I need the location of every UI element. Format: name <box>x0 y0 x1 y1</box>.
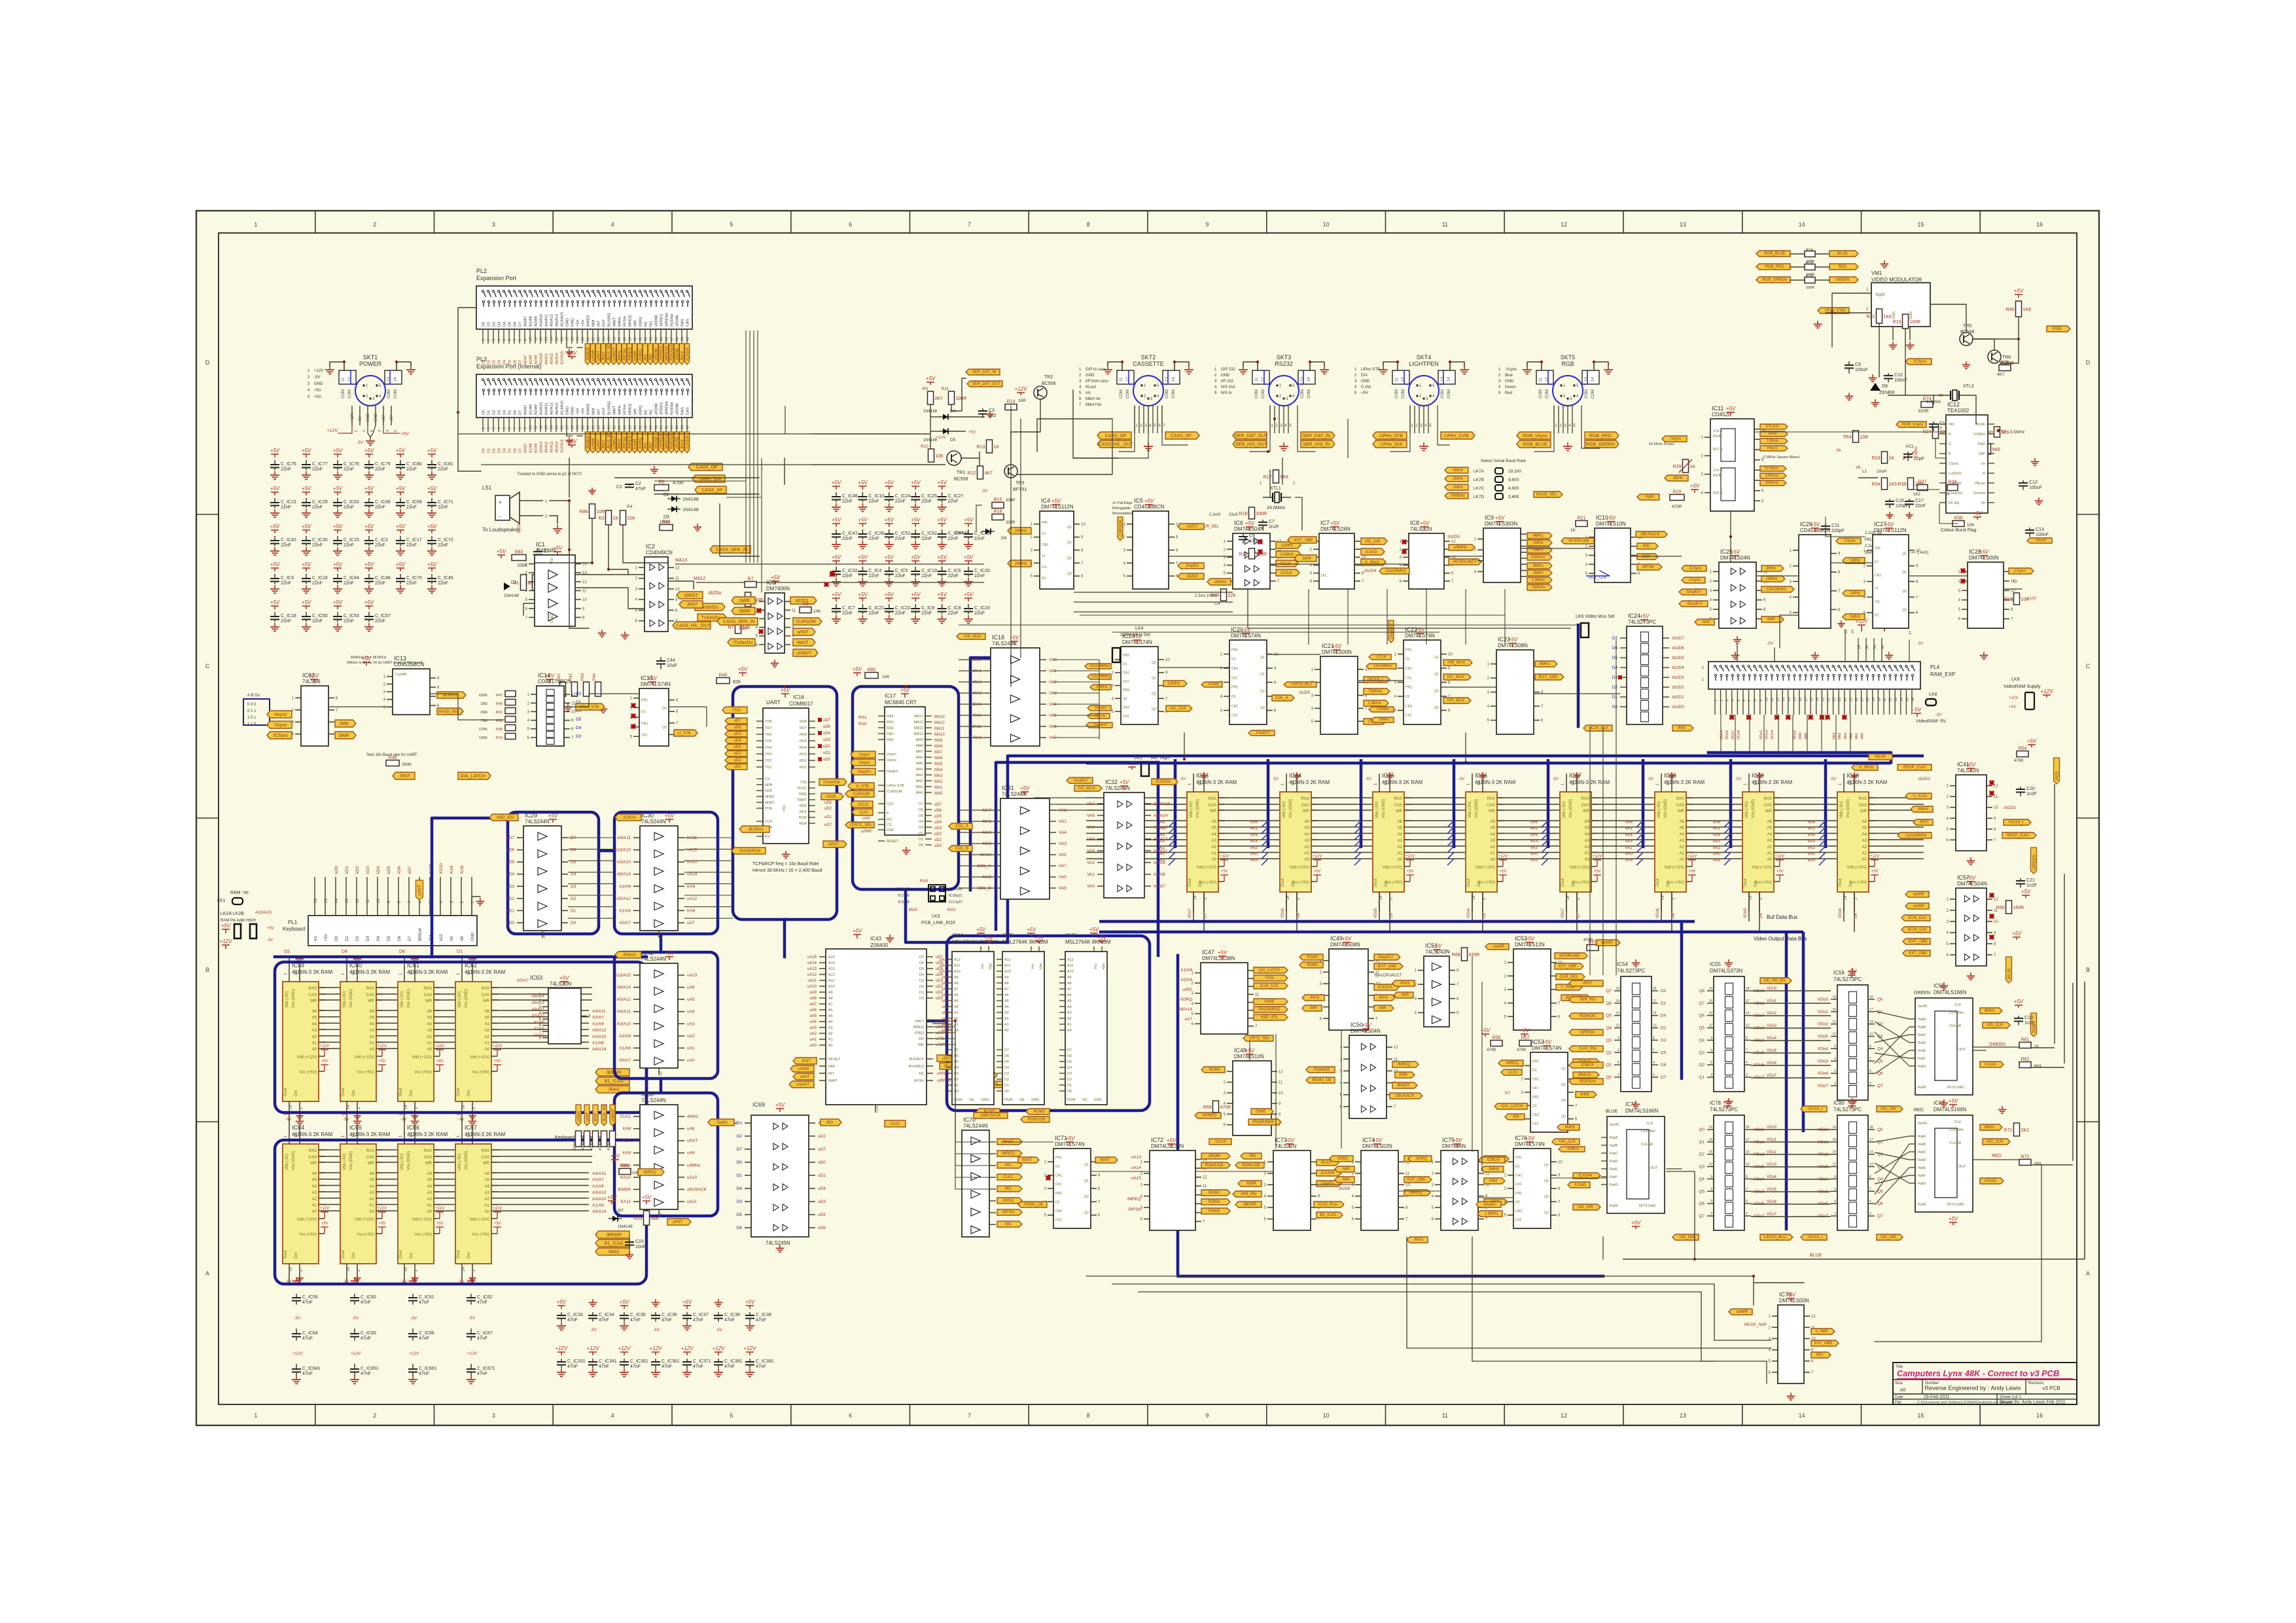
capacitor C_IC33/C_IC331 <box>556 1299 586 1376</box>
svg-text:PL1: PL1 <box>288 919 298 925</box>
svg-text:Vb: Vb <box>1938 394 1943 398</box>
svg-text:WR: WR <box>1860 810 1867 813</box>
svg-text:IC55: IC55 <box>1710 961 1721 967</box>
svg-text:RA0: RA0 <box>858 722 867 726</box>
svg-text:A0/A7: A0/A7 <box>524 316 528 327</box>
svg-text:/BUS_RQ: /BUS_RQ <box>603 1104 607 1122</box>
svg-text:4: 4 <box>1869 1200 1871 1204</box>
svg-text:+12V: +12V <box>220 938 233 944</box>
svg-text:14: 14 <box>1844 895 1848 900</box>
svg-text:TxSerOu: TxSerOu <box>701 616 720 620</box>
svg-text:LK7B: LK7B <box>1474 478 1484 482</box>
svg-text:Vcc (+5V): Vcc (+5V) <box>299 1071 317 1075</box>
svg-text:Q2: Q2 <box>1260 689 1265 693</box>
cassette input parts <box>497 548 548 598</box>
svg-text:12: 12 <box>1708 1024 1712 1028</box>
net flags IC54 <box>1569 980 1603 1084</box>
svg-text:TD5: TD5 <box>765 740 771 743</box>
svg-text:R1: R1 <box>514 581 520 586</box>
svg-text:COM: COM <box>1539 389 1543 399</box>
svg-text:C_IC641: C_IC641 <box>302 1366 321 1371</box>
svg-text:GND: GND <box>314 382 323 386</box>
svg-text:26: 26 <box>1855 698 1859 702</box>
svg-text:ROM3: ROM3 <box>1034 1110 1046 1114</box>
svg-text:kD7: kD7 <box>408 866 412 874</box>
svg-text:22nF: 22nF <box>312 581 323 586</box>
svg-text:R11: R11 <box>942 387 949 391</box>
svg-text:O/P 232: O/P 232 <box>1221 368 1236 372</box>
svg-text:11: 11 <box>1994 795 1998 799</box>
svg-text:C20: C20 <box>2026 787 2035 791</box>
svg-text:Red: Red <box>1505 391 1512 395</box>
svg-text:14: 14 <box>550 425 554 429</box>
svg-text:uA6: uA6 <box>687 986 695 990</box>
crystal XTL1 24.0MHz <box>1260 482 1296 510</box>
svg-text:D1: D1 <box>919 991 924 995</box>
svg-text:SKT2: SKT2 <box>1141 354 1156 361</box>
svg-text:A4: A4 <box>1862 832 1867 836</box>
svg-text:29: 29 <box>629 425 633 429</box>
net flags REXP <box>1852 738 2037 770</box>
capacitor C_IC19 <box>911 554 937 586</box>
svg-text:7: 7 <box>968 1412 971 1419</box>
svg-text:COM: COM <box>1126 389 1130 399</box>
svg-text:A0: A0 <box>1398 858 1403 862</box>
svg-text:18: 18 <box>1653 987 1657 991</box>
jumper LK4 <box>1112 626 1150 662</box>
svg-text:COM: COM <box>1255 389 1259 399</box>
svg-text:Vss (GND): Vss (GND) <box>1382 799 1386 818</box>
svg-text:1N4148: 1N4148 <box>682 497 699 502</box>
svg-text:+5V: +5V <box>302 562 311 567</box>
svg-text:12: 12 <box>1994 898 1998 902</box>
svg-text:22nF: 22nF <box>281 581 291 586</box>
svg-text:xROMi: xROMi <box>655 403 659 415</box>
svg-text:+5V: +5V <box>911 592 921 597</box>
svg-text:KBD_/EN: KBD_/EN <box>1261 1016 1278 1020</box>
svg-text:R13: R13 <box>977 445 985 450</box>
svg-text:+5V: +5V <box>270 448 280 454</box>
svg-text:8: 8 <box>1087 221 1090 228</box>
svg-text:/M1: /M1 <box>644 442 648 449</box>
bus PL4 drop <box>1708 753 1891 762</box>
svg-text:11: 11 <box>675 577 680 581</box>
svg-text:22nF: 22nF <box>438 505 448 510</box>
svg-text:D4: D4 <box>1004 1066 1009 1070</box>
svg-text:A1/A8: A1/A8 <box>529 443 533 453</box>
svg-text:NDB2: NDB2 <box>765 795 775 799</box>
svg-text:/RADR/RDE: /RADR/RDE <box>1252 1120 1274 1124</box>
svg-text:Vpp: Vpp <box>989 963 993 970</box>
svg-text:/VC_MUX: /VC_MUX <box>1078 787 1095 791</box>
svg-text:Q1: Q1 <box>1152 661 1156 665</box>
svg-text:1N4148: 1N4148 <box>504 594 519 598</box>
svg-text:11: 11 <box>1485 1172 1490 1176</box>
svg-text:kD4: kD4 <box>506 872 514 877</box>
svg-text:MC6845 CRT: MC6845 CRT <box>885 700 917 705</box>
svg-text:16: 16 <box>2036 221 2043 228</box>
svg-text:MA4: MA4 <box>934 768 943 772</box>
svg-text:RD6: RD6 <box>800 733 807 737</box>
svg-text:RD7: RD7 <box>800 726 807 730</box>
svg-text:GND: GND <box>471 932 475 941</box>
svg-text:IC43: IC43 <box>870 936 881 942</box>
svg-text:2x Fall Edge: 2x Fall Edge <box>1112 501 1133 505</box>
svg-text:500KHz: 500KHz <box>1531 556 1545 560</box>
svg-text:100R: 100R <box>1806 286 1814 290</box>
svg-text:D1: D1 <box>1123 662 1127 666</box>
svg-text:+5V: +5V <box>545 673 555 679</box>
svg-text:Q1: Q1 <box>1434 656 1439 660</box>
svg-text:Clr1: Clr1 <box>1405 676 1412 680</box>
IC IC56 74LS273PC latch <box>1801 968 1903 1112</box>
svg-text:VA3: VA3 <box>1059 842 1067 846</box>
svg-text:19: 19 <box>1832 1126 1836 1130</box>
svg-text:IC18p11: IC18p11 <box>949 894 962 898</box>
svg-text:17: 17 <box>1746 1138 1750 1142</box>
svg-text:A4: A4 <box>370 1022 375 1026</box>
svg-text:1n2F: 1n2F <box>2024 1021 2035 1026</box>
svg-text:INT: INT <box>828 1072 835 1076</box>
svg-text:C_IC2: C_IC2 <box>375 538 388 543</box>
svg-text:CLK: CLK <box>875 1105 879 1113</box>
svg-text:MREQ: MREQ <box>629 403 633 415</box>
svg-text:35: 35 <box>660 425 664 429</box>
RAM IC60 <box>340 962 390 1121</box>
svg-text:ztBUSACK: ztBUSACK <box>1395 1094 1414 1098</box>
svg-text:+5V: +5V <box>1500 870 1508 874</box>
svg-text:+5V: +5V <box>832 592 841 597</box>
svg-text:u4MHz: u4MHz <box>687 1163 701 1168</box>
svg-text:7: 7 <box>514 427 518 429</box>
svg-text:+5V: +5V <box>976 927 986 933</box>
svg-text:6: 6 <box>849 1412 852 1419</box>
svg-text:IORQ: IORQ <box>639 405 643 415</box>
svg-text:xROMi: xROMi <box>654 348 659 361</box>
svg-text:11: 11 <box>1395 377 1399 382</box>
svg-text:3: 3 <box>1746 1212 1748 1216</box>
svg-text:LumDd1: LumDd1 <box>1949 472 1962 476</box>
svg-text:n/c: n/c <box>314 936 318 941</box>
svg-text:RA3: RA3 <box>887 721 894 724</box>
svg-text:CLK: CLK <box>1954 1003 1962 1007</box>
svg-text:RatC: RatC <box>1610 1152 1618 1156</box>
svg-text:9: 9 <box>1834 1175 1836 1179</box>
svg-text:Clk2: Clk2 <box>1055 1209 1062 1213</box>
svg-text:Dout: Dout <box>457 1088 461 1096</box>
svg-text:17: 17 <box>1869 1008 1873 1012</box>
svg-text:uA7: uA7 <box>687 921 695 925</box>
svg-text:1: 1 <box>254 1412 257 1419</box>
svg-text:GND: GND <box>1361 380 1370 383</box>
svg-text:+5V: +5V <box>832 517 841 523</box>
IC IC75 DM7406N <box>1407 1137 1509 1243</box>
svg-text:uA13: uA13 <box>1131 1155 1142 1160</box>
svg-text:+5V: +5V <box>1285 1137 1295 1143</box>
svg-text:A4: A4 <box>1680 832 1685 836</box>
net flag /RMUX <box>615 950 675 960</box>
svg-text:RatE: RatE <box>1918 1049 1926 1053</box>
svg-text:ROM3: ROM3 <box>1209 1209 1220 1213</box>
svg-text:D2: D2 <box>571 897 576 901</box>
svg-text:/CAS_R1a: /CAS_R1a <box>1318 1203 1337 1207</box>
svg-text:470R: 470R <box>582 1142 586 1150</box>
svg-text:A6: A6 <box>1004 993 1009 997</box>
IC IC3 DM7406N <box>756 579 797 653</box>
op-amp IC1 LM324N <box>525 541 588 626</box>
svg-text:/RST: /RST <box>1920 821 1929 825</box>
svg-text:+5V: +5V <box>364 486 374 491</box>
svg-text:47nF: 47nF <box>361 1336 371 1341</box>
svg-text:14: 14 <box>394 377 398 382</box>
svg-text:56K: 56K <box>651 1217 660 1221</box>
capacitor C_IC29 <box>302 486 328 517</box>
svg-text:Vdd (+12V): Vdd (+12V) <box>1382 866 1402 870</box>
svg-text:A12: A12 <box>1004 958 1011 962</box>
svg-text:A3: A3 <box>1767 839 1773 843</box>
svg-text:RS: RS <box>765 835 770 839</box>
svg-text:RA0: RA0 <box>920 879 928 883</box>
svg-text:/IC24_CLK: /IC24_CLK <box>1908 928 1927 932</box>
svg-text:1: 1 <box>482 339 486 341</box>
bus VA channel right <box>1157 762 1160 955</box>
svg-text:Blue: Blue <box>1505 374 1513 378</box>
svg-text:Vcc (+5V): Vcc (+5V) <box>357 1233 374 1237</box>
svg-text:A6: A6 <box>1491 820 1496 824</box>
svg-text:R15: R15 <box>994 498 1002 503</box>
svg-text:12or24MHz: 12or24MHz <box>1373 664 1392 668</box>
svg-text:10K: 10K <box>936 454 944 459</box>
svg-text:/RAS: /RAS <box>1400 982 1409 986</box>
logic table + sync flags <box>243 694 356 739</box>
svg-text:/LOAD: /LOAD <box>1366 550 1378 554</box>
svg-text:A5/A12: A5/A12 <box>550 441 554 453</box>
svg-text:RatG: RatG <box>1610 1183 1618 1187</box>
svg-text:/EXT_OBE: /EXT_OBE <box>1294 539 1313 543</box>
svg-text:/EXT_OBE: /EXT_OBE <box>1538 675 1557 679</box>
svg-text:GND: GND <box>981 1098 989 1102</box>
svg-text:Q1: Q1 <box>1561 1083 1566 1087</box>
svg-text:17: 17 <box>566 425 570 429</box>
svg-text:22nF: 22nF <box>868 574 879 579</box>
svg-text:/RAS: /RAS <box>1414 1238 1423 1242</box>
svg-text:975.5Hz: 975.5Hz <box>1766 425 1780 429</box>
svg-text:A0: A0 <box>427 1210 433 1214</box>
svg-text:33: 33 <box>650 425 654 429</box>
svg-text:D1: D1 <box>1532 1069 1537 1073</box>
svg-text:Vdd (+12V): Vdd (+12V) <box>469 1056 489 1060</box>
capacitor C_IC2 <box>364 524 388 555</box>
svg-text:IC67: IC67 <box>465 1124 477 1131</box>
svg-text:+12V: +12V <box>2009 696 2019 700</box>
svg-text:47nF: 47nF <box>477 1336 487 1341</box>
svg-text:+5V: +5V <box>364 524 374 529</box>
svg-text:+5V: +5V <box>1027 927 1036 933</box>
svg-text:22: 22 <box>592 337 596 341</box>
svg-text:+12V: +12V <box>1498 855 1508 859</box>
svg-text:/VR_MUX: /VR_MUX <box>1447 699 1464 703</box>
svg-text:22nF: 22nF <box>895 537 906 541</box>
svg-text:12: 12 <box>356 899 360 903</box>
wire bottom row to IC79 <box>1086 1237 1754 1361</box>
svg-text:Clk1: Clk1 <box>1532 1078 1539 1082</box>
svg-text:+12V: +12V <box>1313 855 1322 859</box>
svg-text:A1: A1 <box>1767 852 1773 856</box>
svg-text:GREEN: GREEN <box>1914 991 1930 995</box>
svg-text:C_IC20: C_IC20 <box>974 569 990 573</box>
svg-text:74LS244N: 74LS244N <box>641 1097 666 1103</box>
svg-text:D3: D3 <box>919 826 923 830</box>
svg-text:Camputers Lynx 48K - Correct t: Camputers Lynx 48K - Correct to v3 PCB <box>1897 1368 2059 1378</box>
svg-text:CLEAR: CLEAR <box>1949 1024 1961 1028</box>
svg-text:+5V: +5V <box>364 599 374 605</box>
svg-text:Q6: Q6 <box>1877 1071 1883 1076</box>
svg-text:74LS245N: 74LS245N <box>766 1240 790 1246</box>
svg-text:VA3: VA3 <box>1087 825 1095 830</box>
svg-text:File: File <box>1895 1401 1901 1405</box>
capacitor C_IC57 <box>364 599 391 631</box>
svg-text:+5V: +5V <box>396 448 406 454</box>
svg-text:ROM1: ROM1 <box>1209 1191 1220 1195</box>
svg-text:4: 4 <box>1746 1061 1748 1065</box>
svg-text:SerIN: SerIN <box>1918 1122 1927 1126</box>
svg-text:8: 8 <box>1869 1044 1871 1048</box>
svg-text:SKT3: SKT3 <box>1277 354 1292 361</box>
power video RAM top <box>1366 772 1394 781</box>
svg-text:1n2F: 1n2F <box>2026 792 2037 796</box>
power video RAM top <box>1648 772 1676 781</box>
svg-text:A6: A6 <box>828 1008 833 1012</box>
svg-text:D4: D4 <box>954 1066 959 1070</box>
svg-text:VA6: VA6 <box>1087 813 1095 818</box>
svg-text:WAIT: WAIT <box>797 641 809 645</box>
svg-text:CLK B: CLK B <box>1713 469 1723 473</box>
svg-text:22nF: 22nF <box>974 611 985 616</box>
svg-text:(Which is div by 16 by UART to: (Which is div by 16 by UART to get 2,400… <box>347 661 423 665</box>
svg-text:Q1: Q1 <box>1260 673 1265 677</box>
capacitor C_IC8 <box>937 592 961 623</box>
svg-text:RAS: RAS <box>482 987 489 991</box>
svg-text:31: 31 <box>639 425 643 429</box>
svg-text:IC31: IC31 <box>1002 785 1014 791</box>
svg-text:C_IC671: C_IC671 <box>477 1366 495 1371</box>
svg-text:C_IC6: C_IC6 <box>948 569 961 573</box>
svg-text:DispEn: DispEn <box>1484 1203 1496 1207</box>
svg-text:7: 7 <box>1746 1187 1748 1191</box>
svg-text:zBUSACK: zBUSACK <box>687 1187 707 1192</box>
svg-text:WR: WR <box>1583 810 1590 813</box>
svg-text:A9: A9 <box>1004 976 1009 980</box>
svg-text:+5V: +5V <box>911 554 921 560</box>
svg-text:Clr1: Clr1 <box>1532 1086 1539 1090</box>
svg-text:VDo5: VDo5 <box>1374 908 1378 918</box>
svg-text:-5V: -5V <box>1913 707 1922 713</box>
svg-text:+12V: +12V <box>351 1351 361 1356</box>
svg-text:17: 17 <box>1653 999 1657 1003</box>
svg-text:A5: A5 <box>1067 999 1072 1003</box>
svg-text:C_IC371: C_IC371 <box>693 1359 711 1364</box>
svg-text:A13/A15: A13/A15 <box>561 401 565 415</box>
svg-text:RFSH: RFSH <box>624 404 627 415</box>
svg-text:D2: D2 <box>1231 695 1236 699</box>
svg-text:PGM: PGM <box>1004 1098 1013 1102</box>
svg-text:D4: D4 <box>503 410 507 415</box>
svg-text:BLUE: BLUE <box>2007 967 2012 979</box>
svg-text:22nF: 22nF <box>921 611 932 616</box>
svg-text:A1: A1 <box>370 1204 375 1208</box>
IC IC16 COM8017 UART <box>756 687 815 844</box>
svg-text:-5V: -5V <box>1180 777 1186 781</box>
svg-text:/12or24MHz: /12or24MHz <box>1905 834 1927 838</box>
svg-text:47nF: 47nF <box>477 1372 487 1376</box>
svg-text:RDEN#4: RDEN#4 <box>670 433 675 449</box>
capacitor C_IC4 <box>858 554 881 586</box>
svg-text:uA15: uA15 <box>807 955 817 959</box>
svg-text:22nF: 22nF <box>842 537 853 541</box>
capacitor C_IC26 <box>858 517 884 548</box>
svg-text:/TDS: /TDS <box>732 709 741 713</box>
svg-text:A1/A8: A1/A8 <box>592 1204 604 1208</box>
svg-text:SKT4: SKT4 <box>1417 354 1432 361</box>
net flags IC72 <box>1127 1153 1230 1214</box>
jumper LK9 VideoRAM Supply <box>2004 677 2053 709</box>
svg-text:D7: D7 <box>919 802 923 806</box>
svg-text:/bWR: /bWR <box>1246 1182 1257 1186</box>
svg-text:/RST: /RST <box>400 774 411 779</box>
svg-text:CLK1: CLK1 <box>620 1115 631 1119</box>
svg-text:VDo7: VDo7 <box>1561 908 1565 918</box>
svg-text:38.5KHz: 38.5KHz <box>749 828 764 832</box>
svg-text:+5V: +5V <box>885 554 894 560</box>
svg-text:PR2: PR2 <box>1405 686 1412 690</box>
svg-text:MA10: MA10 <box>914 732 923 736</box>
svg-text:A7: A7 <box>954 988 959 991</box>
svg-text:SigIN: SigIN <box>1875 293 1885 297</box>
svg-text:Vcc (+5V): Vcc (+5V) <box>414 1071 432 1075</box>
svg-text:3: 3 <box>1725 700 1729 702</box>
svg-text:VA3: VA3 <box>1530 839 1538 844</box>
svg-text:A5: A5 <box>1491 827 1496 830</box>
svg-text:10R: 10R <box>597 510 605 514</box>
svg-text:CASS_OP: CASS_OP <box>1105 434 1127 438</box>
svg-text:4MHz: 4MHz <box>1533 534 1544 538</box>
svg-text:MA8: MA8 <box>916 744 923 748</box>
svg-text:GREEN: GREEN <box>1835 278 1849 282</box>
svg-text:+5V: +5V <box>1407 870 1415 874</box>
svg-text:uD2: uD2 <box>734 752 742 756</box>
svg-text:VDo1: VDo1 <box>1759 730 1763 740</box>
svg-text:18: 18 <box>1869 1126 1873 1130</box>
svg-text:Vss (GND): Vss (GND) <box>465 1151 468 1170</box>
svg-text:11: 11 <box>342 377 345 382</box>
svg-text:INT: INT <box>597 320 601 327</box>
svg-text:C_IC7: C_IC7 <box>842 606 855 611</box>
svg-text:11: 11 <box>1442 1412 1448 1419</box>
svg-text:/RD: /RD <box>1643 544 1650 548</box>
svg-text:D3: D3 <box>498 322 502 327</box>
svg-text:VideoRAM -5V: VideoRAM -5V <box>1916 719 1947 724</box>
TEA1002 left parts <box>1836 431 1958 518</box>
svg-text:RDEN4: RDEN4 <box>671 313 675 327</box>
RAM IC65 <box>340 1124 390 1283</box>
svg-text:47nF: 47nF <box>630 1364 641 1369</box>
svg-text:XPRES: XPRES <box>660 402 664 415</box>
svg-text:Dout: Dout <box>342 1088 345 1096</box>
RAM IC67 <box>455 1124 505 1283</box>
svg-text:1K: 1K <box>994 445 1000 450</box>
svg-text:VDo5: VDo5 <box>1744 908 1748 918</box>
svg-text:3.9KHz: 3.9KHz <box>1767 439 1778 443</box>
